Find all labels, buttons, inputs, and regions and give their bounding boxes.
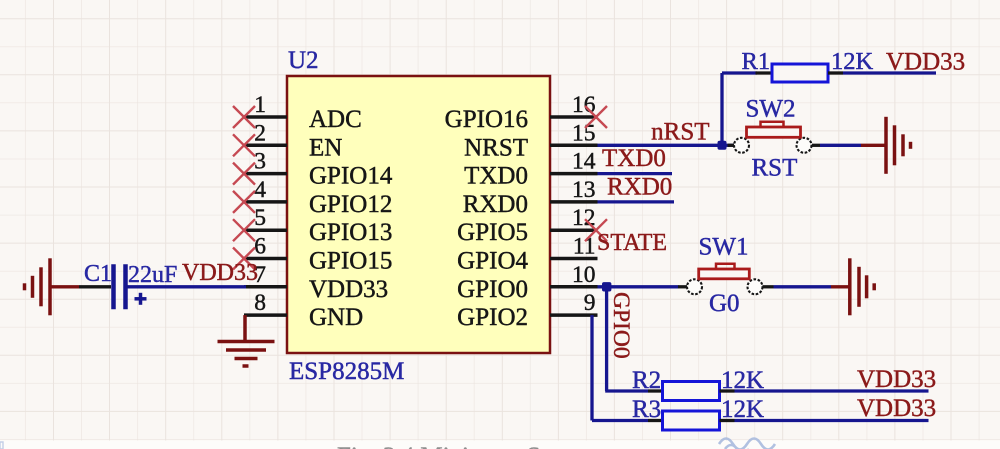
label G0 (709, 290, 740, 317)
pin 9 wire (550, 290, 598, 316)
svg-text:9: 9 (584, 290, 596, 316)
value 12K (R2) (721, 367, 764, 394)
svg-text:22uF: 22uF (128, 262, 177, 288)
pin name GND (309, 304, 363, 331)
pin name VDD33 (309, 276, 388, 303)
resistor R1 (772, 64, 828, 82)
svg-text:GPIO4: GPIO4 (457, 248, 528, 275)
switch SW1 (678, 264, 763, 295)
ground (C1 left) (25, 258, 80, 315)
wire R2 right (720, 389, 929, 392)
wire TXD0 (598, 172, 673, 175)
net label RXD0 (607, 174, 672, 201)
svg-text:NRST: NRST (464, 134, 528, 161)
svg-text:TXD0: TXD0 (464, 163, 528, 190)
pin name GPIO12 (309, 191, 392, 218)
wire R1 right (828, 71, 936, 74)
wire R3 right (720, 419, 929, 422)
svg-text:GND: GND (309, 304, 363, 331)
pin name GPIO16 (445, 106, 528, 133)
wire pin10 to SW1 (598, 285, 679, 288)
svg-text:GPIO13: GPIO13 (309, 219, 392, 246)
pin name GPIO14 (309, 163, 393, 190)
pin 1 wire (244, 92, 287, 118)
svg-text:11: 11 (573, 234, 596, 260)
pin 5 wire (244, 205, 287, 231)
pin name GPIO0 (457, 276, 528, 303)
pin name GPIO2 (457, 304, 528, 331)
designator R3 (632, 396, 661, 423)
svg-text:R1: R1 (742, 48, 771, 75)
corner mark (0, 442, 3, 449)
wire RXD0 (598, 200, 675, 203)
capacitor C1 (79, 264, 147, 309)
wire SW2 to ground (812, 144, 885, 147)
resistor R3 (663, 411, 720, 430)
svg-text:STATE: STATE (597, 230, 667, 256)
svg-text:4: 4 (254, 177, 266, 203)
svg-text:2: 2 (254, 120, 266, 146)
svg-text:ADC: ADC (309, 106, 362, 133)
label RST (752, 155, 798, 182)
svg-text:SW1: SW1 (699, 234, 749, 261)
svg-text:3: 3 (254, 149, 266, 175)
svg-text:SW2: SW2 (746, 96, 796, 123)
pin name GPIO4 (457, 248, 528, 275)
pin name RXD0 (463, 191, 528, 218)
ground (SW2) (886, 117, 911, 174)
svg-text:14: 14 (572, 149, 596, 175)
pin 10 wire (550, 262, 598, 288)
resistor R2 (663, 382, 720, 401)
pin 8 wire (244, 290, 287, 316)
svg-text:EN: EN (309, 134, 342, 161)
designator U2 (288, 47, 319, 74)
wire nRST vertical (720, 73, 723, 145)
svg-text:VDD33: VDD33 (857, 366, 936, 393)
svg-text:ESP8285M: ESP8285M (289, 358, 404, 385)
wire pin9 down (592, 315, 663, 420)
svg-text:13: 13 (572, 177, 596, 203)
svg-text:GPIO2: GPIO2 (457, 304, 528, 331)
wire pin15 to junction (598, 144, 723, 147)
svg-text:R3: R3 (632, 396, 661, 423)
svg-text:15: 15 (572, 120, 596, 146)
ground (pin 8) (218, 315, 275, 366)
label C1 (84, 261, 112, 287)
svg-text:RXD0: RXD0 (607, 174, 672, 201)
net label VDD33 (R1) (886, 49, 965, 76)
designator SW2 (746, 96, 796, 123)
svg-text:GPIO16: GPIO16 (445, 106, 528, 133)
part name ESP8285M (289, 358, 404, 385)
no-connect X pin 3 (233, 163, 255, 185)
pin name NRST (464, 134, 528, 161)
svg-text:TXD0: TXD0 (602, 145, 666, 172)
svg-text:RXD0: RXD0 (463, 191, 528, 218)
no-connect X pin 2 (233, 134, 255, 156)
svg-text:U2: U2 (288, 47, 319, 74)
pin name EN (309, 134, 342, 161)
no-connect X pin 6 (233, 248, 255, 270)
svg-text:VDD33: VDD33 (182, 260, 258, 286)
value 12K (R1) (831, 48, 874, 75)
net label VDD33 (C1) (182, 260, 258, 286)
svg-text:12K: 12K (831, 48, 874, 75)
pin 2 wire (244, 120, 287, 146)
pin 13 wire (550, 177, 598, 203)
caption Fig. 3.4 (clipped at bottom) (337, 443, 601, 449)
pin name GPIO5 (457, 219, 528, 246)
watermark (719, 439, 775, 449)
pin 14 wire (550, 149, 598, 175)
wire junction to SW2 (726, 144, 734, 147)
pin 3 wire (244, 149, 287, 175)
svg-text:GPIO0: GPIO0 (457, 276, 528, 303)
svg-text:R2: R2 (632, 367, 661, 394)
net label nRST (651, 119, 709, 146)
designator R2 (632, 367, 661, 394)
wire R1 left (722, 71, 772, 74)
svg-text:1: 1 (254, 92, 266, 118)
no-connect X pin 1 (233, 106, 255, 128)
value 12K (R3) (721, 396, 764, 423)
svg-text:GPIO5: GPIO5 (457, 219, 528, 246)
svg-text:VDD33: VDD33 (309, 276, 388, 303)
svg-text:GPIO12: GPIO12 (309, 191, 392, 218)
pin 15 wire (550, 120, 598, 146)
pin 4 wire (244, 177, 287, 203)
svg-text:5: 5 (254, 205, 266, 231)
pin 7 wire (244, 262, 287, 288)
net label STATE (597, 230, 667, 256)
pin name ADC (309, 106, 362, 133)
pin name GPIO15 (309, 248, 392, 275)
svg-text:RST: RST (752, 155, 798, 182)
junction GPIO0 (602, 282, 611, 291)
svg-text:nRST: nRST (651, 119, 709, 146)
ground (SW1) (850, 258, 874, 315)
svg-text:G0: G0 (709, 290, 740, 317)
designator R1 (742, 48, 771, 75)
value 22uF (128, 262, 177, 288)
pin 11 wire (550, 234, 598, 260)
switch SW2 (728, 122, 812, 153)
svg-text:VDD33: VDD33 (886, 49, 965, 76)
svg-text:GPIO14: GPIO14 (309, 163, 393, 190)
net label GPIO0 vertical (608, 292, 634, 359)
svg-text:10: 10 (572, 262, 596, 288)
no-connect X pin 5 (233, 219, 255, 241)
net label VDD33 (R2) (857, 366, 936, 393)
net label VDD33 (R3) (857, 395, 936, 422)
pin name GPIO13 (309, 219, 392, 246)
no-connect X pin 12 (585, 219, 607, 241)
pin 16 wire (550, 92, 598, 118)
svg-text:C1: C1 (84, 261, 112, 287)
wire SW1 to ground (763, 285, 849, 288)
svg-text:Fig. 3.4 Minimum System: Fig. 3.4 Minimum System (337, 443, 601, 449)
svg-text:GPIO15: GPIO15 (309, 248, 392, 275)
svg-text:VDD33: VDD33 (857, 395, 936, 422)
pin 6 wire (244, 234, 287, 260)
wire VDD33 to pin 7 (128, 285, 247, 288)
wire GPIO0 down (605, 291, 662, 391)
no-connect X pin 4 (233, 191, 255, 213)
no-connect X pin 16 (585, 106, 607, 128)
IC U2 body ESP8285M (287, 76, 550, 353)
designator SW1 (699, 234, 749, 261)
junction nRST (718, 141, 727, 150)
svg-text:8: 8 (254, 290, 266, 316)
net label TXD0 (602, 145, 666, 172)
pin name TXD0 (464, 163, 528, 190)
svg-text:GPIO0: GPIO0 (608, 292, 634, 359)
pin 12 wire (550, 205, 598, 231)
svg-text:6: 6 (254, 234, 266, 260)
